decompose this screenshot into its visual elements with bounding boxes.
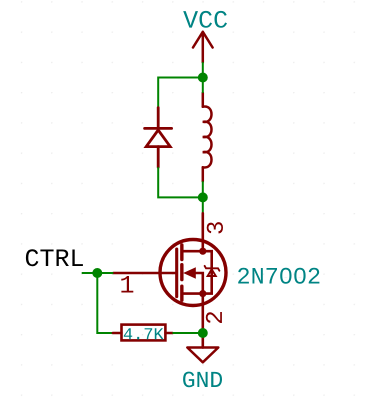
- inductor L1: [203, 93, 212, 181]
- wire VCC stem to top junction: [202, 62, 204, 77]
- wire CTRL junction down to resistor: [97, 273, 113, 333]
- pin number 3: [207, 222, 223, 233]
- power flag VCC: [193, 32, 213, 62]
- wire junction to gate pin: [97, 272, 113, 274]
- wire inductor top: [202, 78, 204, 93]
- wire top junction to diode branch: [158, 78, 203, 108]
- source node dot: [199, 290, 206, 297]
- diode D1: [145, 108, 172, 168]
- drain node dot: [199, 248, 206, 255]
- junction source/resistor/gnd: [198, 328, 208, 338]
- transistor Q1 2N7002: [113, 240, 226, 306]
- body diode: [205, 266, 220, 276]
- value label 2N7002: [238, 268, 319, 284]
- resistor R1: [113, 325, 173, 341]
- net label GND: [183, 372, 222, 388]
- value 4.7K: [124, 328, 164, 339]
- wire junction to drain: [202, 197, 204, 213]
- wire resistor to source junction: [173, 332, 203, 334]
- net label CTRL: [26, 249, 83, 266]
- wire inductor bottom: [202, 181, 204, 197]
- wire CTRL to junction: [82, 272, 98, 274]
- arrow bulk: [183, 267, 196, 279]
- pin number 2: [206, 312, 222, 323]
- ground symbol: [187, 348, 218, 363]
- junction CTRL: [92, 268, 102, 278]
- pin 2 source lead: [202, 294, 205, 348]
- zero counter patches: [284, 272, 289, 277]
- junction top: [198, 73, 208, 83]
- junction bottom of parallel pair: [198, 192, 208, 202]
- wire diode bottom to bottom junction: [158, 167, 203, 197]
- net label VCC: [183, 11, 227, 28]
- pin 3 drain lead: [202, 213, 205, 251]
- pin number 1: [121, 276, 133, 293]
